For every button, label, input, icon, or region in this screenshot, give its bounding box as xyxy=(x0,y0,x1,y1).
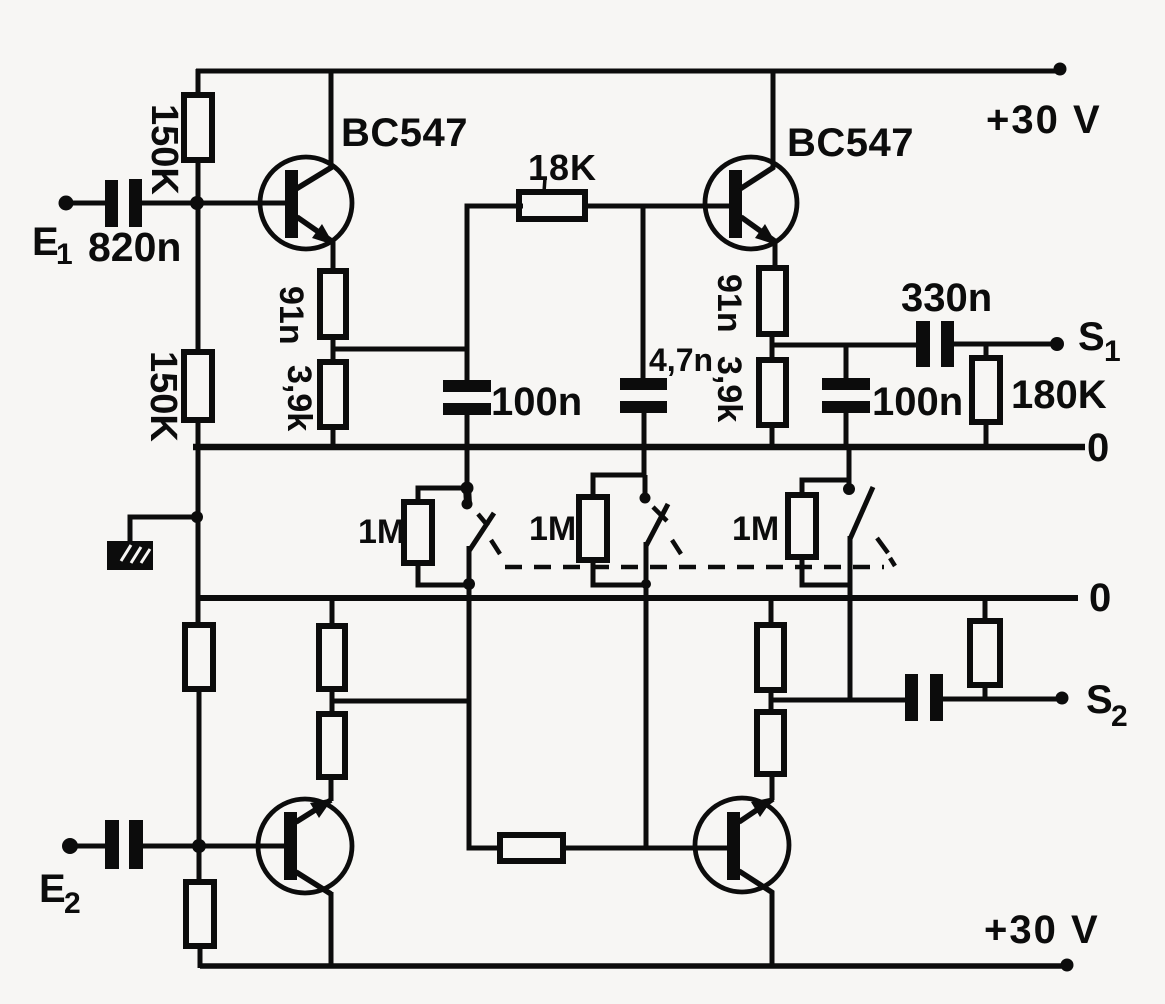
wire Q2 emitter down xyxy=(773,241,778,270)
S2 terminal dot xyxy=(1056,692,1069,705)
wire emitter junction to column A xyxy=(333,347,467,352)
capacitor E2 plate right xyxy=(129,820,143,869)
wire bottom-left junction to column A xyxy=(332,699,469,704)
resistor 1M second xyxy=(579,497,607,560)
0 rail upper xyxy=(193,444,1085,451)
wire bottom 180K stub from 0 rail xyxy=(983,598,988,623)
node E2/base junction xyxy=(192,839,206,853)
wire 180K to 0 rail xyxy=(984,422,989,450)
svg-text:BC547: BC547 xyxy=(787,121,914,165)
svg-text:1: 1 xyxy=(56,238,73,271)
svg-text:E: E xyxy=(39,867,66,911)
svg-text:1M: 1M xyxy=(529,510,576,548)
resistor 1M third branch bottom wire xyxy=(802,557,850,585)
wire bottom 180K to S2 wire xyxy=(983,683,988,700)
capacitor 100n second top plate xyxy=(822,378,870,390)
switch lever cell 1 xyxy=(469,513,494,551)
resistor 91n left xyxy=(320,271,346,337)
wire Q1 collector to top rail xyxy=(329,69,334,169)
svg-text:0: 0 xyxy=(1087,426,1109,470)
capacitor S2 right plate xyxy=(930,674,943,721)
capacitor 100n first, bottom plate xyxy=(443,403,491,415)
wire 4,7n to 0 rail and switch stub cell 2 xyxy=(642,413,647,477)
wire column A lever to bottom corner xyxy=(469,546,500,848)
ground tee junction xyxy=(191,511,203,523)
svg-text:E: E xyxy=(32,220,59,264)
wire E2 node to Q3 base xyxy=(199,844,285,849)
capacitor 330n right plate xyxy=(941,321,954,367)
wire Q2 collector to top rail xyxy=(771,69,776,169)
wire left column R1 to base node xyxy=(196,158,201,205)
junction blob cell 2 bottom xyxy=(641,579,651,589)
S1 terminal dot xyxy=(1050,337,1064,351)
wire 91n to 3,9k junction xyxy=(331,337,336,364)
svg-text:150K: 150K xyxy=(143,104,185,195)
resistor R4 (bottom-left bias lower) xyxy=(186,882,214,946)
svg-text:3,9k: 3,9k xyxy=(710,356,748,422)
resistor 1M first branch top wire xyxy=(418,488,467,503)
resistor bottom-right lower xyxy=(757,712,784,774)
transistor Q1 BC547 xyxy=(260,157,352,249)
svg-text:91n: 91n xyxy=(710,274,748,333)
wire to ground xyxy=(130,517,198,543)
wire 3,9k right to 0 rail xyxy=(770,425,775,450)
svg-text:1M: 1M xyxy=(358,513,405,551)
wire Q1 emitter down xyxy=(331,241,336,273)
junction and contact dot cell 3 xyxy=(843,483,855,495)
transistor Q2 BC547 xyxy=(705,157,797,249)
wire left column R2 to ground tee xyxy=(196,418,201,628)
resistor bottom-left lower xyxy=(319,714,345,777)
resistor R3 (bottom-left bias upper) xyxy=(185,625,213,689)
wire 100n second to 0 rail xyxy=(844,413,849,450)
wire junction to S2 capacitor xyxy=(771,698,906,703)
wire Q4 collector to bottom rail xyxy=(770,891,775,968)
top rail end dot xyxy=(1054,63,1067,76)
svg-text:4,7n: 4,7n xyxy=(649,342,713,378)
wire capacitor to base node xyxy=(142,201,198,206)
svg-text:1: 1 xyxy=(1104,335,1121,368)
svg-text:3,9k: 3,9k xyxy=(280,365,318,431)
capacitor E2 plate left xyxy=(105,820,119,869)
svg-text:150K: 150K xyxy=(142,351,184,442)
resistor 3,9k right xyxy=(759,360,786,425)
wire Q4 emitter up xyxy=(770,774,775,800)
wire column B lever to Q4 base wire xyxy=(644,542,649,850)
resistor 150K lower xyxy=(184,352,212,420)
capacitor 330n left plate xyxy=(916,321,930,367)
resistor 1M second branch bottom wire xyxy=(593,560,645,585)
svg-text:1M: 1M xyxy=(732,510,779,548)
svg-text:S: S xyxy=(1078,315,1105,359)
+30V top rail xyxy=(196,69,1062,74)
wire base node to Q1 xyxy=(198,201,287,206)
switch lever tick cell 2 xyxy=(653,507,667,521)
resistor 1M first branch bottom wire xyxy=(418,563,468,585)
switch lever tick cell 1 xyxy=(478,514,488,526)
E1 terminal dot xyxy=(59,196,74,211)
svg-text:820n: 820n xyxy=(88,224,181,270)
wire E1 to capacitor xyxy=(66,201,106,206)
junction dot col A bottom xyxy=(463,578,475,590)
wire left column R3 to E2 node xyxy=(197,687,202,884)
switch lever cell 3 xyxy=(850,487,873,539)
wire E2 to capacitor xyxy=(70,844,106,849)
wire Q3 emitter up xyxy=(329,777,334,801)
wire bottom-right column stub from 0 rail xyxy=(769,598,774,627)
resistor bottom right output xyxy=(970,621,1000,685)
switch S fixed contact dot cell 1 xyxy=(462,499,473,510)
0 rail lower xyxy=(197,595,1078,601)
wire between bottom-left resistors xyxy=(330,687,335,716)
capacitor 4,7n bottom plate xyxy=(620,401,667,413)
svg-text:+30 V: +30 V xyxy=(986,98,1102,142)
capacitor 820n plate left xyxy=(105,180,118,227)
resistor 1M second branch top wire xyxy=(593,475,645,498)
resistor 18K xyxy=(519,192,585,219)
wire emitter junction to S1 xyxy=(772,343,917,348)
wire column C stub from 0 rail xyxy=(847,447,852,492)
svg-text:330n: 330n xyxy=(901,276,992,320)
switch fixed contact dot cell 2 xyxy=(640,493,651,504)
wire 91n right to junction xyxy=(770,334,775,362)
svg-text:100n: 100n xyxy=(491,380,582,424)
transistor Q4 (bottom right) xyxy=(695,797,789,893)
wire left column R4 to bottom rail xyxy=(198,944,203,968)
capacitor 820n plate right xyxy=(129,179,142,227)
ground block xyxy=(107,541,153,570)
wire Q3 collector to bottom rail xyxy=(329,892,334,968)
junction dot col A resistor branch xyxy=(461,482,474,495)
wire left column base node to R2 xyxy=(196,203,201,354)
svg-text:S: S xyxy=(1086,678,1113,722)
resistor 3,9k left xyxy=(320,362,346,427)
transistor Q3 (bottom left) xyxy=(258,798,352,894)
wire 3,9k to 0 rail xyxy=(331,427,336,450)
capacitor S2 left plate xyxy=(905,674,918,721)
resistor 1M third branch top wire xyxy=(802,480,847,496)
resistor 1M first xyxy=(404,502,432,563)
svg-text:18K: 18K xyxy=(528,147,597,188)
svg-text:2: 2 xyxy=(64,887,81,920)
resistor 91n right xyxy=(759,268,786,334)
+30V bottom rail xyxy=(200,963,1069,969)
svg-text:100n: 100n xyxy=(872,380,963,424)
wire 330n to S1 xyxy=(954,342,1053,347)
capacitor 100n second bottom plate xyxy=(822,401,870,413)
svg-text:+30 V: +30 V xyxy=(984,908,1100,952)
wire 18K right to Q2 base xyxy=(583,204,730,209)
wire column C lever to S2 wire xyxy=(848,536,853,701)
svg-text:BC547: BC547 xyxy=(341,111,468,155)
wire 100n to 0 rail and switch stub xyxy=(465,415,470,500)
wire left column rail to R1 xyxy=(196,69,201,97)
capacitor 4,7n top plate xyxy=(620,378,667,390)
node E1/base junction xyxy=(190,196,204,210)
wire 18K left to column A top xyxy=(467,206,523,382)
wire 100n second column xyxy=(844,345,849,380)
switch gang dashed link xyxy=(491,538,895,567)
wire bottom-left column stub from 0 rail xyxy=(330,598,335,628)
wire E2 capacitor to node xyxy=(143,844,199,849)
svg-text:180K: 180K xyxy=(1011,373,1107,417)
wire 180K top stub xyxy=(984,344,989,360)
switch lever cell 2 xyxy=(646,504,668,546)
wire between bottom-right resistors xyxy=(769,688,774,714)
wire horizontal resistor to Q4 base xyxy=(563,846,728,851)
resistor bottom-left upper xyxy=(319,626,345,689)
resistor 180K xyxy=(972,358,1000,422)
wire S2 capacitor to S2 xyxy=(943,697,1058,702)
resistor bottom-right upper xyxy=(757,625,784,690)
resistor 150K upper xyxy=(184,95,212,160)
resistor 1M third xyxy=(788,495,816,557)
E2 terminal dot xyxy=(62,838,78,854)
svg-text:0: 0 xyxy=(1089,576,1111,620)
resistor horizontal bottom center xyxy=(500,835,563,861)
wire column B top xyxy=(641,206,646,380)
svg-text:2: 2 xyxy=(1111,700,1128,733)
bottom rail end dot xyxy=(1061,959,1074,972)
capacitor 100n first, top plate xyxy=(443,380,491,392)
svg-text:91n: 91n xyxy=(272,286,310,345)
